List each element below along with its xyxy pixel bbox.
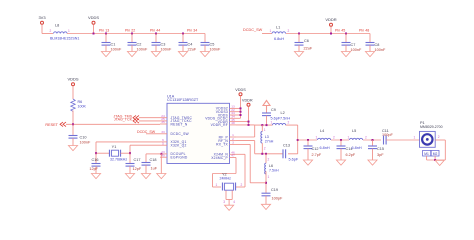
svg-text:2: 2 [438,135,440,139]
svg-text:100pF: 100pF [272,196,283,200]
svg-text:VDDS: VDDS [67,77,78,82]
svg-text:4: 4 [233,200,235,204]
svg-text:3V3: 3V3 [38,15,46,20]
svg-text:3: 3 [232,141,234,145]
svg-text:M1: M1 [424,152,429,156]
svg-text:12pF: 12pF [133,167,142,171]
svg-text:C4: C4 [188,43,193,47]
svg-text:100nF: 100nF [161,48,172,52]
svg-text:100nF: 100nF [111,48,122,52]
svg-text:Pin 34: Pin 34 [187,29,197,33]
svg-text:100nF: 100nF [137,48,148,52]
svg-text:C11: C11 [382,129,389,133]
svg-text:6.8nH: 6.8nH [352,146,362,150]
svg-text:JTAG_TCK: JTAG_TCK [114,118,133,122]
svg-text:DCDC_SW: DCDC_SW [137,130,156,134]
svg-text:Pin 45: Pin 45 [335,29,345,33]
svg-text:5.6pF: 5.6pF [289,158,299,162]
svg-text:22uF: 22uF [304,47,313,51]
svg-text:6.8nH: 6.8nH [320,146,330,150]
svg-text:2: 2 [50,29,52,33]
svg-text:100nF: 100nF [375,48,386,52]
svg-text:1: 1 [216,183,218,187]
svg-text:L1: L1 [276,26,280,30]
svg-text:48: 48 [231,121,235,125]
svg-text:1: 1 [414,136,416,140]
svg-text:C10: C10 [80,136,87,140]
svg-text:27nH: 27nH [265,140,274,144]
svg-text:12pF: 12pF [89,167,98,171]
svg-text:VDDR_RF: VDDR_RF [211,123,228,127]
svg-text:C12: C12 [312,147,319,151]
svg-text:6.8uH: 6.8uH [274,37,284,41]
svg-text:6.2pF: 6.2pF [346,153,356,157]
svg-text:DCDC_SW: DCDC_SW [171,132,190,136]
svg-text:CC1310F128RGZT: CC1310F128RGZT [167,98,199,102]
svg-text:M2: M2 [433,152,438,156]
svg-text:C3: C3 [161,43,166,47]
svg-text:C17: C17 [134,158,141,162]
svg-text:Pin 22: Pin 22 [125,29,135,33]
svg-text:1: 1 [68,29,70,33]
svg-text:X24MC_P: X24MC_P [211,156,228,160]
svg-text:2.7pF: 2.7pF [312,153,322,157]
svg-text:35: 35 [161,120,165,124]
svg-text:100nF: 100nF [351,48,362,52]
svg-text:BLM18HE152SN1: BLM18HE152SN1 [50,37,79,41]
svg-text:1: 1 [270,29,272,33]
svg-text:Pin 13: Pin 13 [99,29,109,33]
svg-text:C6: C6 [304,39,309,43]
svg-text:C8: C8 [375,43,380,47]
svg-text:33: 33 [161,130,165,134]
svg-text:22uF: 22uF [188,48,197,52]
svg-text:VDDS: VDDS [235,88,246,92]
svg-text:L4: L4 [320,129,324,133]
svg-text:DCDC_SW: DCDC_SW [243,28,263,32]
svg-text:2: 2 [288,29,290,33]
svg-text:C13: C13 [283,144,290,148]
svg-text:C15: C15 [377,147,384,151]
svg-text:C1: C1 [111,43,116,47]
svg-text:RX_TX: RX_TX [216,143,228,147]
svg-text:1uF: 1uF [151,167,158,171]
svg-text:VDDR: VDDR [242,99,253,103]
svg-text:C5: C5 [210,43,215,47]
svg-text:VDDS: VDDS [88,15,99,20]
svg-text:C16: C16 [92,158,99,162]
svg-text:C2: C2 [137,43,142,47]
svg-text:47: 47 [231,154,235,158]
svg-text:100nF: 100nF [210,48,221,52]
svg-text:L5: L5 [352,129,356,133]
svg-text:Pin 44: Pin 44 [150,29,160,33]
svg-text:2: 2 [288,121,290,125]
svg-text:Pin 48: Pin 48 [359,29,369,33]
svg-text:2: 2 [365,136,367,140]
svg-text:EGP/GND: EGP/GND [171,156,188,160]
svg-text:L3: L3 [265,135,269,139]
svg-text:2: 2 [241,183,243,187]
svg-text:3: 3 [223,200,225,204]
svg-text:2: 2 [333,136,335,140]
svg-text:3pF: 3pF [377,153,384,157]
svg-text:1: 1 [264,128,266,132]
svg-text:24MHz: 24MHz [220,177,232,181]
svg-text:VDDR: VDDR [325,17,336,22]
svg-text:RESET_N: RESET_N [171,122,188,126]
svg-text:L2: L2 [281,111,285,115]
svg-text:C7: C7 [351,43,356,47]
svg-text:X32K_Q2: X32K_Q2 [171,144,187,148]
svg-text:7.5nH: 7.5nH [269,168,279,172]
svg-text:C19: C19 [271,188,278,192]
svg-text:Y1: Y1 [112,145,117,149]
svg-text:1: 1 [271,121,273,125]
svg-text:1: 1 [268,175,270,179]
svg-text:2: 2 [268,158,270,162]
svg-text:2: 2 [264,147,266,151]
svg-text:C9: C9 [271,108,276,112]
svg-text:100K: 100K [78,105,87,109]
svg-text:100nF: 100nF [80,141,91,145]
svg-text:L8: L8 [55,24,59,28]
svg-text:RESET: RESET [45,123,58,127]
svg-text:32.768kHz: 32.768kHz [110,158,127,162]
svg-text:MM8029-2700: MM8029-2700 [420,125,443,129]
svg-text:R6: R6 [78,100,83,104]
svg-text:5: 5 [162,141,164,145]
svg-text:C18: C18 [150,158,157,162]
